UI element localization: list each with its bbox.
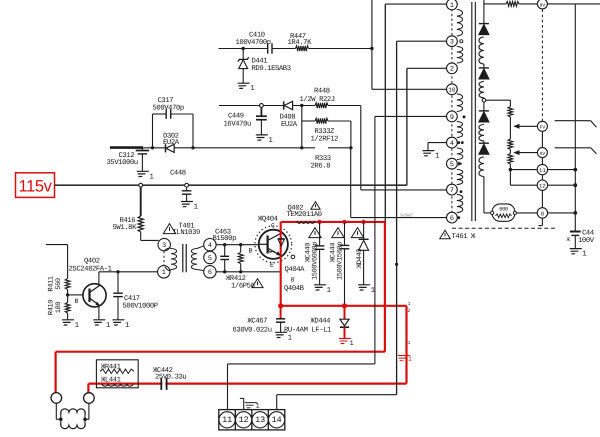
T401 pin 5 bbox=[204, 251, 216, 263]
svg-text:B: B bbox=[75, 298, 79, 305]
bus: pin3 to connector14 bbox=[395, 41, 447, 395]
svg-text:10: 10 bbox=[448, 87, 456, 94]
svg-text:R448: R448 bbox=[314, 88, 330, 96]
svg-text:TEM2011A0: TEM2011A0 bbox=[287, 211, 322, 219]
diode D302 bbox=[163, 132, 180, 152]
svg-text:1: 1 bbox=[327, 287, 332, 295]
ground under C44 bbox=[567, 249, 581, 254]
T481 pin 1 bbox=[447, 0, 458, 10]
degauss post 1 bbox=[51, 393, 62, 404]
wire: pin9 line bbox=[375, 115, 447, 117]
svg-text:1: 1 bbox=[75, 322, 80, 330]
wire: 115V main line bbox=[55, 184, 407, 186]
ground under C448 bbox=[179, 202, 193, 207]
terminal 11 bbox=[509, 168, 537, 172]
svg-text:C: C bbox=[271, 223, 275, 230]
inductor on collector line bbox=[297, 221, 315, 223]
label Q404B bbox=[284, 277, 305, 293]
T481 pin 9 bbox=[447, 111, 458, 122]
svg-text:SV: SV bbox=[540, 151, 546, 157]
node C417 bbox=[116, 270, 119, 273]
red node dots on collector line bbox=[318, 220, 322, 224]
svg-text:1/2W R22J: 1/2W R22J bbox=[300, 95, 335, 104]
break stub 2 bbox=[555, 148, 597, 154]
svg-text:1: 1 bbox=[162, 269, 166, 277]
svg-text:13: 13 bbox=[255, 415, 265, 425]
svg-text:Q404B: Q404B bbox=[284, 285, 305, 293]
svg-text:600: 600 bbox=[499, 206, 508, 212]
FV terminal bbox=[537, 121, 547, 131]
svg-text:5: 5 bbox=[208, 255, 212, 263]
red wire: C442 line horizontal bbox=[88, 383, 406, 385]
svg-text:1: 1 bbox=[268, 137, 273, 145]
T401 core bbox=[182, 244, 184, 272]
T481 pin 2 bbox=[447, 63, 458, 74]
resistor divider chain bbox=[508, 107, 513, 186]
svg-text:ЖD444: ЖD444 bbox=[311, 318, 331, 326]
red ground under D444 bbox=[337, 338, 354, 348]
T481 core bbox=[471, 2, 473, 221]
ground under C417 bbox=[110, 320, 124, 325]
connector pin 13 bbox=[252, 412, 268, 428]
capacitor C448 bbox=[170, 170, 191, 202]
svg-text:560: 560 bbox=[55, 278, 63, 290]
capacitor C463 bbox=[213, 229, 237, 274]
svg-text:ЖQ404: ЖQ404 bbox=[258, 216, 278, 224]
capacitor C417 bbox=[113, 272, 158, 320]
svg-text:ЖC467: ЖC467 bbox=[248, 318, 268, 326]
svg-text:1/6P56: 1/6P56 bbox=[231, 281, 255, 290]
resistor R412 bbox=[226, 243, 263, 290]
svg-text:4: 4 bbox=[450, 140, 454, 148]
capacitor C449 bbox=[224, 107, 267, 134]
diode D444 bbox=[284, 306, 349, 338]
svg-text:C449: C449 bbox=[228, 113, 244, 121]
T481 pin 6 bbox=[447, 212, 458, 223]
svg-text:1: 1 bbox=[408, 356, 412, 363]
wire: pin6 to emitter node bbox=[216, 271, 281, 273]
svg-text:7: 7 bbox=[450, 187, 454, 195]
fusible resistor 600 bbox=[484, 204, 537, 221]
red wire: left drop to degauss post bbox=[54, 352, 56, 393]
svg-text:14: 14 bbox=[272, 415, 282, 425]
diode D408 bbox=[280, 101, 298, 129]
svg-text:11: 11 bbox=[539, 167, 546, 174]
resistor R333Z (top branch) bbox=[302, 118, 351, 148]
diode D440 bbox=[351, 222, 368, 285]
wire: HV top line bbox=[484, 2, 600, 7]
svg-text:1R4.7K: 1R4.7K bbox=[288, 39, 313, 47]
svg-text:3: 3 bbox=[162, 242, 166, 250]
svg-text:8: 8 bbox=[541, 210, 544, 217]
svg-text:8: 8 bbox=[291, 277, 295, 284]
svg-text:9: 9 bbox=[450, 114, 454, 122]
T481 secondary winding column bbox=[479, 0, 489, 213]
svg-text:C44: C44 bbox=[582, 229, 594, 237]
connector pin 11 bbox=[219, 412, 235, 428]
wire: connector 11 to T481 pin9 bus bbox=[228, 116, 375, 409]
T481 pin 7 bbox=[447, 184, 458, 195]
ground under D441 bbox=[235, 83, 249, 88]
HV terminal bbox=[537, 0, 547, 9]
label Q404A bbox=[285, 255, 306, 274]
T401 pin 3 bbox=[158, 238, 170, 250]
svg-text:1: 1 bbox=[408, 340, 411, 346]
T401 pin 1 bbox=[158, 266, 170, 278]
dashed HV-FV bbox=[541, 9, 543, 121]
svg-text:1: 1 bbox=[194, 204, 199, 212]
node base junction bbox=[66, 290, 84, 303]
svg-text:4: 4 bbox=[208, 242, 212, 250]
svg-text:500V1000P: 500V1000P bbox=[123, 303, 158, 311]
wire 12-8 bbox=[541, 190, 543, 207]
node C449 bbox=[260, 104, 264, 108]
ground under D440 bbox=[356, 285, 370, 290]
svg-text:1: 1 bbox=[435, 153, 440, 161]
svg-text:B: B bbox=[249, 248, 253, 255]
transistor Q404 bbox=[255, 226, 292, 263]
svg-text:1500V1500p: 1500V1500p bbox=[337, 242, 345, 280]
red node dots bbox=[278, 303, 283, 308]
resistor R441 bbox=[100, 363, 134, 373]
svg-text:1: 1 bbox=[250, 85, 255, 93]
wire: R333 junction down to T481 pin6 bbox=[351, 148, 447, 218]
transformer T481 label bbox=[440, 230, 476, 241]
capacitor C410 bbox=[236, 31, 273, 53]
wire: pin4 to Q404 base bbox=[216, 244, 259, 246]
capacitor C317 loop box bbox=[153, 97, 194, 148]
svg-text:2: 2 bbox=[450, 66, 454, 74]
wire: C312/D302/R333 line bbox=[110, 147, 351, 149]
svg-text:100V: 100V bbox=[578, 237, 595, 245]
degauss coil bbox=[56, 403, 89, 428]
wire FV-SV bbox=[541, 131, 543, 147]
svg-text:ЖL441: ЖL441 bbox=[101, 376, 121, 384]
ground under C449 bbox=[253, 135, 267, 140]
svg-text:1500V6000p: 1500V6000p bbox=[312, 242, 320, 280]
capacitor C312 bbox=[107, 148, 150, 171]
resistor R411 bbox=[48, 276, 71, 291]
svg-text:115v: 115v bbox=[19, 178, 53, 196]
wire: secondary tap to divider bbox=[486, 100, 511, 106]
right rail bbox=[573, 4, 577, 231]
svg-text:6: 6 bbox=[450, 215, 454, 223]
red wire: C442 net vertical bbox=[405, 306, 407, 384]
red wire: collector line to right bbox=[281, 221, 385, 223]
svg-text:HV: HV bbox=[540, 2, 546, 8]
bus: pin2 to 115V bbox=[407, 68, 447, 185]
svg-text:EU2A: EU2A bbox=[163, 139, 180, 147]
terminal 12 bbox=[510, 158, 542, 186]
SV terminal bbox=[537, 148, 547, 158]
svg-text:100V4700p: 100V4700p bbox=[236, 39, 271, 47]
svg-text:5W1.8K: 5W1.8K bbox=[113, 224, 138, 232]
svg-text:C448: C448 bbox=[170, 170, 186, 178]
node C448 bbox=[185, 183, 189, 187]
wire: D408/R448 line bbox=[219, 105, 361, 107]
T401 secondary winding bbox=[191, 246, 203, 271]
node: vertical link D408-line to R333 line bbox=[300, 104, 303, 150]
ground under C312 bbox=[134, 171, 148, 176]
capacitor C444 bbox=[330, 222, 350, 306]
ground near connector 12 bbox=[240, 398, 260, 410]
capacitor C467 bbox=[233, 306, 286, 335]
ground under R410 bbox=[60, 320, 74, 325]
wire: Q402 emitter to ground bbox=[98, 306, 100, 320]
bus: pin1 to Q404 collector bbox=[385, 4, 446, 222]
FV arrow tap bbox=[513, 124, 537, 129]
T481 pin 3 bbox=[447, 36, 458, 47]
capacitor C440 bbox=[305, 222, 325, 285]
svg-text:1: 1 bbox=[350, 340, 354, 348]
degauss post 2 bbox=[84, 393, 95, 404]
svg-text:ЖD440: ЖD440 bbox=[356, 249, 364, 268]
svg-text:Q404A: Q404A bbox=[285, 266, 306, 274]
T481 dashed shield line bbox=[452, 227, 556, 229]
svg-text:RU-4AM LF-L1: RU-4AM LF-L1 bbox=[284, 326, 331, 334]
connector pin 12 bbox=[236, 412, 252, 428]
wire: R448 down to T481 pin7 bbox=[361, 106, 447, 190]
label Q402 TEM2011A0 bbox=[287, 202, 322, 219]
red wire: right bus down bbox=[384, 222, 386, 352]
svg-text:B1500p: B1500p bbox=[213, 235, 237, 243]
node: D441 junction bbox=[242, 47, 245, 50]
break stub 1 bbox=[555, 121, 597, 128]
ground under C467 bbox=[273, 332, 287, 337]
resistor R410 bbox=[48, 300, 71, 320]
ground under Q402 bbox=[91, 320, 105, 325]
svg-text:12: 12 bbox=[239, 415, 249, 425]
red ground mark on C442 net bbox=[396, 356, 412, 363]
wire: C410/R447 line to T481 pin10 bus bbox=[219, 48, 372, 50]
T401 pin 6 bbox=[204, 266, 216, 278]
svg-text:T461: T461 bbox=[452, 233, 468, 241]
capacitor C44 bbox=[567, 229, 595, 248]
winding taps marks bbox=[460, 40, 463, 43]
resistor R447 bbox=[288, 33, 313, 51]
red wire: bottom long horizontal bbox=[56, 351, 385, 353]
svg-text:5: 5 bbox=[450, 161, 454, 169]
capacitor C442 bbox=[153, 367, 186, 390]
bus: pin10/C410 vertical bbox=[370, 0, 446, 89]
svg-text:11: 11 bbox=[222, 415, 232, 425]
svg-text:E: E bbox=[270, 262, 274, 269]
wire: terminal 8 stub down bbox=[539, 218, 543, 226]
ground near pin4 bbox=[420, 151, 434, 156]
red wire: vertical through Q404 down to snubber node bbox=[280, 222, 282, 306]
resistor R333 (bottom branch) bbox=[311, 146, 353, 171]
resistor R416 bbox=[113, 187, 159, 240]
svg-text:TLN1039: TLN1039 bbox=[173, 229, 200, 237]
svg-text:1: 1 bbox=[408, 301, 411, 307]
T401 primary winding bbox=[165, 248, 177, 271]
svg-text:180: 180 bbox=[55, 302, 63, 314]
node R416 bbox=[139, 183, 143, 187]
red wire: degauss post 2 drop bbox=[87, 384, 89, 393]
svg-text:1: 1 bbox=[106, 322, 111, 330]
T481 pin 4 bbox=[447, 137, 458, 148]
svg-text:500V470p: 500V470p bbox=[153, 104, 184, 112]
svg-text:1: 1 bbox=[288, 334, 293, 342]
svg-text:1: 1 bbox=[149, 173, 154, 181]
svg-text:16V470u: 16V470u bbox=[224, 120, 251, 128]
svg-text:25V0.33u: 25V0.33u bbox=[155, 373, 186, 381]
wire: stub above R411 bbox=[46, 245, 68, 279]
svg-text:3: 3 bbox=[450, 39, 454, 47]
resistor R448 bbox=[300, 88, 335, 109]
svg-text:2: 2 bbox=[408, 308, 411, 314]
diode D441 (zener) bbox=[238, 49, 291, 83]
T481 pin 5 bbox=[447, 158, 458, 169]
svg-text:35V1000u: 35V1000u bbox=[107, 159, 138, 167]
svg-text:FV: FV bbox=[540, 125, 546, 131]
svg-text:2R6.8: 2R6.8 bbox=[311, 163, 331, 171]
connector pin 14 bbox=[269, 412, 285, 428]
svg-text:6: 6 bbox=[208, 269, 212, 277]
terminal 8 bbox=[537, 208, 547, 218]
T401 dashed link 3-1 bbox=[163, 251, 165, 265]
svg-text:12: 12 bbox=[539, 183, 546, 190]
damper diode overlay bbox=[276, 239, 284, 256]
svg-text:1/2RF12: 1/2RF12 bbox=[311, 134, 338, 143]
wires: terminals to right rail bbox=[548, 170, 576, 213]
svg-text:RD9.1ESAB3: RD9.1ESAB3 bbox=[252, 65, 291, 73]
component box R441/L441 bbox=[96, 360, 138, 388]
SV arrow tap bbox=[513, 150, 537, 155]
T481 dashed spine bbox=[451, 9, 453, 213]
wire: connector 14 to pin3 bus bbox=[277, 395, 397, 410]
svg-text:EU2A: EU2A bbox=[281, 121, 298, 129]
transformer T401 bbox=[163, 222, 200, 237]
T481 pin 10 bbox=[447, 84, 458, 95]
red wire: snubber node horizontal bbox=[281, 305, 407, 307]
svg-text:1: 1 bbox=[582, 251, 587, 259]
wire: pin4 ground stub bbox=[428, 143, 447, 151]
label box 115v bbox=[16, 173, 55, 198]
svg-text:630V0.022u: 630V0.022u bbox=[233, 326, 272, 334]
inductor L441 bbox=[101, 376, 133, 386]
T481 primary winding arcs bbox=[457, 10, 463, 213]
ground under C440 bbox=[312, 285, 326, 290]
svg-text:1: 1 bbox=[450, 2, 454, 10]
transistor Q402 bbox=[75, 284, 107, 307]
T401 pin 4 bbox=[204, 239, 216, 251]
connector strip 11-14 bbox=[219, 410, 285, 430]
wire: Q402 collector to T401 pin1 bbox=[99, 272, 158, 286]
svg-text:1: 1 bbox=[125, 322, 130, 330]
